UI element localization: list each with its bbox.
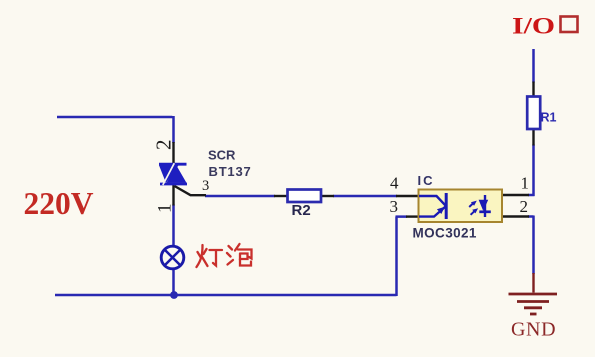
svg-text:4: 4 <box>390 174 399 193</box>
svg-text:3: 3 <box>202 178 209 194</box>
svg-text:GND: GND <box>511 319 556 341</box>
svg-text:IC: IC <box>418 173 435 188</box>
svg-text:2: 2 <box>520 197 529 216</box>
svg-text:R2: R2 <box>292 202 311 219</box>
svg-text:BT137: BT137 <box>209 164 252 179</box>
svg-text:I/O: I/O <box>512 14 555 39</box>
svg-text:2: 2 <box>152 140 176 151</box>
svg-text:1: 1 <box>521 174 530 193</box>
svg-text:3: 3 <box>390 197 399 216</box>
svg-text:SCR: SCR <box>208 148 236 163</box>
svg-text:1: 1 <box>155 204 176 214</box>
svg-text:220V: 220V <box>24 186 94 221</box>
svg-text:R1: R1 <box>541 111 557 125</box>
svg-text:MOC3021: MOC3021 <box>413 226 477 241</box>
